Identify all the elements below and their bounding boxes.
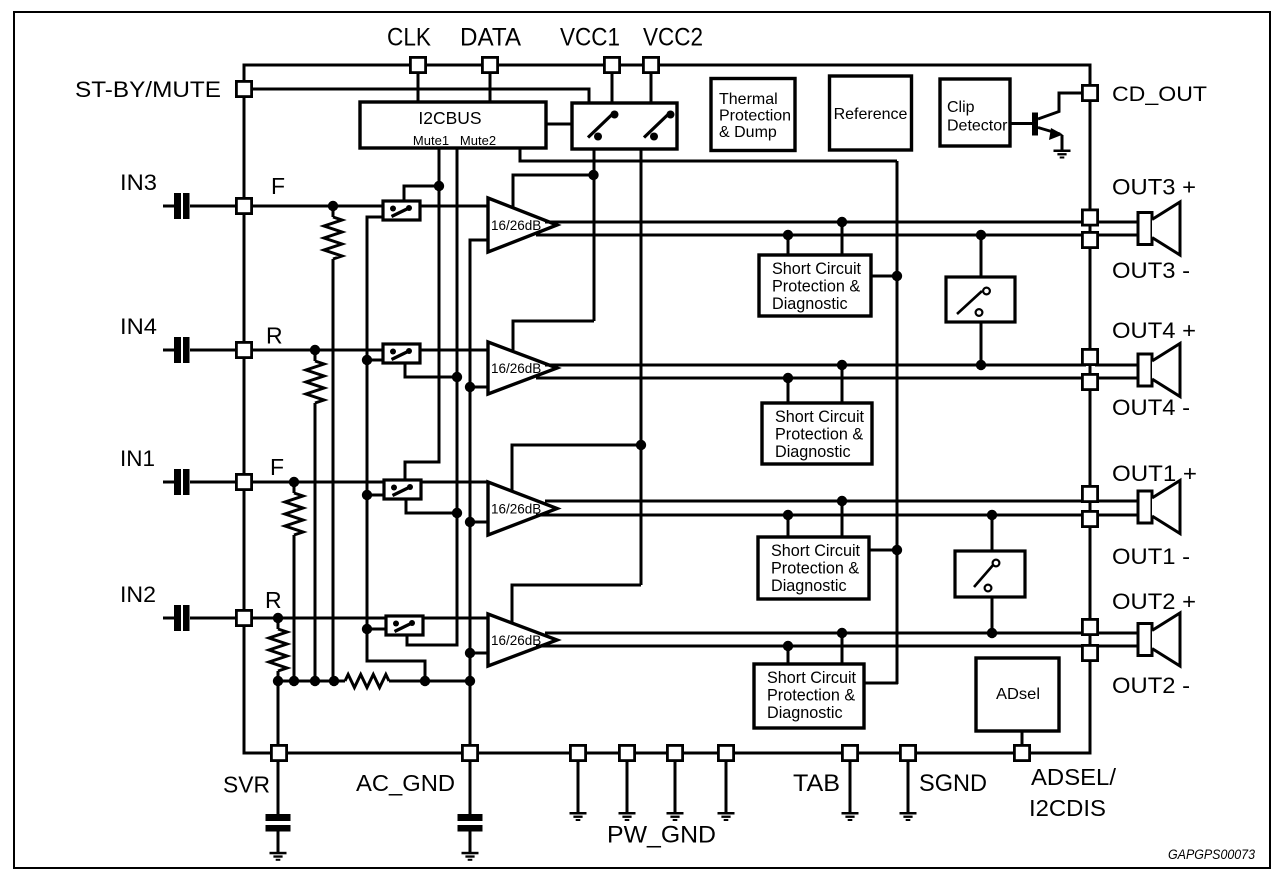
wire Mute2 control bus [407, 148, 457, 645]
wire SC box row2 left sense connector [787, 378, 790, 403]
pin PW_GND3 [667, 745, 682, 760]
junction dot AC bus row3 [465, 517, 475, 527]
pin PW_GND4 [718, 745, 733, 760]
ground symbol SGND [900, 812, 917, 815]
wire PW_GND pin 3 stub [674, 762, 677, 813]
wire speaker stub + row1 [1095, 221, 1139, 224]
svg-text:OUT3 +: OUT3 + [1112, 175, 1196, 200]
speaker OUT1 [1138, 491, 1152, 523]
wire SC box row3 left sense connector [787, 515, 790, 537]
svg-text:ADsel: ADsel [996, 686, 1040, 703]
pin VCC1 [604, 57, 619, 72]
wire OUT upper line channel row1 [545, 221, 1086, 224]
svg-text:Short Circuit: Short Circuit [775, 408, 865, 426]
wire amp3 feedback tap [512, 445, 641, 491]
junction dot SC1 tap [892, 271, 902, 281]
wire SC box row4 left sense connector [787, 646, 790, 664]
wire speaker stub + row3 [1095, 500, 1139, 503]
wire PW_GND pin 4 stub [725, 762, 728, 813]
svg-text:I2CBUS: I2CBUS [418, 108, 481, 128]
wire chain stub to box3 [367, 494, 385, 497]
svg-text:GAPGPS00073: GAPGPS00073 [1168, 847, 1255, 862]
svg-text:IN2: IN2 [120, 582, 156, 607]
wire Mute1 control bus [405, 148, 439, 481]
junction dot amp1 feedback [588, 170, 598, 180]
pin OUT1- [1082, 511, 1097, 526]
junction dot input row1 [328, 201, 338, 211]
pin ADSEL/I2CDIS [1014, 745, 1029, 760]
IC boundary box [244, 65, 1090, 753]
svg-text:CLK: CLK [387, 23, 431, 51]
wire SVR to pin [277, 681, 280, 744]
ground symbol PW_GND 3 [667, 812, 684, 815]
svg-text:SGND: SGND [919, 770, 987, 797]
wire amp3 inverting input [470, 521, 488, 524]
op-amp power amplifier A2 (16/26dB) [488, 342, 557, 394]
wire RSW2 lower connector to OUT2+ line [991, 595, 994, 633]
svg-text:OUT3 -: OUT3 - [1112, 258, 1190, 283]
svg-text:Mute1: Mute1 [413, 133, 449, 148]
ground symbol PW_GND 1 [570, 812, 587, 815]
pin OUT3- [1082, 232, 1097, 247]
wire channel3 input switch control [404, 186, 437, 201]
ground symbol transistor emitter [1054, 150, 1071, 153]
svg-text:SVR: SVR [223, 772, 270, 798]
svg-text:IN1: IN1 [120, 446, 155, 471]
svg-text:AC_GND: AC_GND [356, 770, 455, 796]
wire RSW1 upper connector to OUT3- line [980, 235, 983, 280]
block Reference [830, 76, 912, 150]
wire ST-BY/MUTE from pin to dual switch box [253, 89, 589, 103]
block Short Circuit Protection & Diagnostic 3 [758, 537, 869, 599]
block Short Circuit Protection & Diagnostic 2 [762, 403, 872, 464]
capacitor CIN1 input coupling [163, 481, 174, 484]
svg-text:Clip: Clip [947, 99, 975, 116]
junction dot AC bus row2 [465, 382, 475, 392]
wire speaker stub + row2 [1095, 364, 1139, 367]
wire channel1 input switch control to Mute2 [406, 499, 454, 513]
wire input line row3 from IN pin to amplifier [253, 481, 488, 484]
svg-text:& Dump: & Dump [719, 124, 777, 141]
svg-text:OUT2 +: OUT2 + [1112, 589, 1196, 614]
svg-text:Reference: Reference [834, 106, 908, 123]
resistor RIN1 input bias [293, 482, 296, 493]
wire OUT upper line channel row4 [545, 632, 1086, 635]
capacitor CIN4 input coupling [163, 349, 174, 352]
svg-text:VCC1: VCC1 [560, 23, 620, 51]
input mute switch box row3 [384, 480, 421, 499]
block Short Circuit Protection & Diagnostic 4 [754, 664, 864, 728]
pin OUT1+ [1082, 486, 1097, 501]
svg-text:Diagnostic: Diagnostic [775, 443, 851, 461]
pin OUT4+ [1082, 349, 1097, 364]
ground symbol AC_GND [462, 852, 479, 855]
svg-text:Protection &: Protection & [772, 278, 860, 296]
svg-text:Diagnostic: Diagnostic [772, 295, 848, 313]
wire DATA pin to I2CBUS [489, 74, 492, 103]
svg-text:OUT1 -: OUT1 - [1112, 544, 1190, 569]
junction dot SC sense lower row1 [783, 230, 793, 240]
junction dot RSW1 upper [976, 230, 986, 240]
wire tap SC1 to diagnostic bus [871, 275, 897, 278]
svg-text:Diagnostic: Diagnostic [771, 577, 847, 595]
svg-text:VCC2: VCC2 [643, 23, 703, 51]
resistor Rmix horizontal [345, 675, 389, 688]
svg-text:I2CDIS: I2CDIS [1029, 795, 1106, 821]
junction dot Mute2 to channel-4R input switch [452, 372, 462, 382]
junction dot bus IN2 leg / SVR [273, 676, 283, 686]
wire RSW1 lower connector to OUT4+ line [980, 320, 983, 365]
pin PW_GND1 [570, 745, 585, 760]
input mute switch box row1 [383, 201, 420, 220]
svg-text:OUT4 +: OUT4 + [1112, 318, 1196, 343]
svg-text:Detector: Detector [947, 118, 1008, 135]
svg-text:Thermal: Thermal [719, 91, 778, 108]
svg-text:Diagnostic: Diagnostic [767, 704, 843, 722]
wire amp1 feedback tap [513, 175, 593, 207]
pin IN3 [236, 198, 251, 213]
ground symbol PW_GND 4 [718, 812, 735, 815]
op-amp power amplifier A3 (16/26dB) [488, 482, 557, 535]
pin IN2 [236, 610, 251, 625]
svg-text:OUT4 -: OUT4 - [1112, 395, 1190, 420]
switch glyph RSW2 [974, 564, 994, 587]
input mute switch box row4 [386, 616, 423, 635]
wire speaker stub - row3 [1095, 514, 1139, 517]
switch glyph B in dual switch box [644, 115, 668, 138]
pin DATA [482, 57, 497, 72]
wire SC box row2 right sense connector [841, 365, 844, 403]
resistor RIN4 input bias [314, 350, 317, 361]
svg-text:Short Circuit: Short Circuit [771, 542, 861, 560]
pin TAB [842, 745, 857, 760]
wire OUT lower line channel row3 [536, 514, 1086, 517]
junction dot bus chain leg [420, 676, 430, 686]
block I2CBUS [360, 102, 546, 148]
pin VCC2 [643, 57, 658, 72]
svg-text:Short Circuit: Short Circuit [772, 260, 862, 278]
junction dot input row2 [310, 345, 320, 355]
wire SVR pin lead below [277, 762, 280, 814]
transistor Q1 clip detector output [1010, 122, 1033, 125]
input mute switch box row2 [383, 344, 420, 363]
svg-text:16/26dB: 16/26dB [491, 218, 541, 233]
op-amp power amplifier A4 (16/26dB) [488, 614, 557, 666]
wire CD_OUT to transistor collector [1038, 93, 1081, 119]
junction dot SC sense lower row3 [783, 510, 793, 520]
wire bottom summing bus [278, 680, 345, 683]
speaker OUT2 [1138, 624, 1152, 656]
svg-text:PW_GND: PW_GND [607, 822, 716, 849]
svg-text:OUT1 +: OUT1 + [1112, 461, 1197, 486]
svg-text:Short Circuit: Short Circuit [767, 669, 857, 687]
wire VCC1 pin to switch box [611, 74, 614, 104]
junction dot SC sense upper row2 [837, 360, 847, 370]
op-amp power amplifier A1 (16/26dB) [488, 198, 557, 252]
block Clip Detector [940, 79, 1010, 146]
svg-text:IN3: IN3 [120, 170, 157, 195]
wire PW_GND pin 1 stub [577, 762, 580, 813]
wire switch output right x=641 [640, 149, 643, 585]
junction dot bus IN3 leg [329, 676, 339, 686]
junction dot chain row4 [362, 624, 372, 634]
wire AC_GND feedback bus x=470 [470, 240, 487, 744]
junction dot bus IN1 leg [289, 676, 299, 686]
block ADsel [976, 658, 1059, 731]
pin IN4 [236, 342, 251, 357]
capacitor CIN2 input coupling [163, 617, 174, 620]
junction dot input row3 [289, 477, 299, 487]
wire amp4 inverting input [471, 652, 488, 655]
switch glyph RSW1 [957, 291, 982, 314]
svg-text:16/26dB: 16/26dB [491, 501, 541, 516]
junction dot SC sense lower row2 [783, 373, 793, 383]
pin SVR [271, 745, 286, 760]
pin PW_GND2 [619, 745, 634, 760]
switch glyph A in dual switch box [588, 115, 612, 138]
wire chain stub to box4 [367, 628, 387, 631]
wire speaker stub - row4 [1095, 645, 1139, 648]
wire SGND pin stub [907, 762, 910, 813]
svg-text:Protection &: Protection & [775, 426, 863, 444]
wire TAB pin stub [849, 762, 852, 813]
pin CD_OUT [1082, 85, 1097, 100]
pin ST-BY/MUTE [236, 81, 251, 96]
svg-text:R: R [265, 587, 282, 613]
ground symbol TAB [842, 812, 859, 815]
wire AC_GND pin lead below [469, 762, 472, 814]
svg-text:Mute2: Mute2 [460, 133, 496, 148]
wire amp4 feedback tap [512, 585, 641, 623]
junction dot bus IN4 leg [310, 676, 320, 686]
block Thermal Protection & Dump [711, 79, 795, 151]
wire SC box row3 right sense connector [841, 501, 844, 537]
junction dot RSW1 lower [976, 360, 986, 370]
wire I2CBUS tap down and right to node bus [520, 148, 897, 161]
junction dot SC sense lower row4 [783, 641, 793, 651]
svg-text:OUT2 -: OUT2 - [1112, 673, 1190, 698]
wire OUT lower line channel row2 [536, 377, 1086, 380]
svg-text:16/26dB: 16/26dB [491, 633, 541, 648]
wire vertical diagnostic bus x=897 [896, 161, 899, 684]
ground symbol SVR [270, 852, 287, 855]
resistor RIN3 input bias [332, 206, 335, 217]
pin OUT3+ [1082, 210, 1097, 225]
wire RSW2 upper connector to OUT1- line [991, 515, 994, 553]
capacitor C_SVR [266, 814, 291, 821]
svg-text:ST-BY/MUTE: ST-BY/MUTE [75, 77, 221, 102]
pin OUT4- [1082, 374, 1097, 389]
svg-text:ADSEL/: ADSEL/ [1031, 764, 1117, 790]
junction dot chain row3 [362, 490, 372, 500]
wire speaker stub - row1 [1095, 234, 1139, 237]
svg-text:F: F [270, 454, 284, 480]
wire input line row2 from IN pin to amplifier [253, 349, 488, 352]
junction dot amp3 feedback [636, 440, 646, 450]
capacitor C_ACGND [458, 814, 483, 821]
junction dot SC sense upper row3 [837, 496, 847, 506]
svg-text:DATA: DATA [460, 23, 521, 51]
pin SGND [900, 745, 915, 760]
wire CLK pin to I2CBUS [417, 74, 420, 103]
junction dot chain row2 [362, 355, 372, 365]
svg-text:R: R [266, 323, 283, 349]
wire speaker stub - row2 [1095, 377, 1139, 380]
junction dot Mute1 to channel-3 input switch [434, 181, 444, 191]
capacitor CIN3 input coupling [163, 205, 174, 208]
junction dot SC sense upper row1 [837, 217, 847, 227]
pin OUT2+ [1082, 619, 1097, 634]
block output switch RSW1 [946, 277, 1015, 322]
wire speaker stub + row4 [1095, 632, 1139, 635]
junction dot input row4 [273, 613, 283, 623]
block output switch RSW2 [955, 551, 1025, 597]
svg-text:Protection &: Protection & [767, 687, 855, 705]
wire SC box row1 left sense connector [787, 235, 790, 255]
pin AC_GND [462, 745, 477, 760]
wire input line row1 from IN pin to amplifier [253, 205, 488, 208]
speaker OUT3 [1138, 213, 1152, 245]
block dual CD/diag switch box U2 [572, 103, 677, 149]
svg-text:CD_OUT: CD_OUT [1112, 83, 1207, 106]
ground symbol PW_GND 2 [619, 812, 636, 815]
wire OUT lower line channel row1 [536, 234, 1086, 237]
pin IN1 [236, 474, 251, 489]
svg-text:TAB: TAB [793, 770, 840, 797]
wire tap SC4 to diagnostic bus [864, 682, 898, 685]
wire SC box row1 right sense connector [841, 222, 844, 255]
wire amp2 inverting input [470, 386, 488, 389]
speaker OUT4 [1138, 354, 1152, 386]
wire OUT upper line channel row3 [545, 500, 1086, 503]
svg-text:Protection &: Protection & [771, 560, 859, 578]
wire I2CBUS to switch box [546, 123, 572, 126]
junction dot AC bus bottom network [465, 676, 475, 686]
wire input-switch chain bus x=367 [367, 217, 425, 681]
wire OUT upper line channel row2 [545, 364, 1086, 367]
svg-text:Protection: Protection [719, 108, 791, 125]
wire input line row4 from IN pin to amplifier [253, 617, 488, 620]
block Short Circuit Protection & Diagnostic 1 [759, 255, 871, 316]
junction dot RSW2 lower [987, 628, 997, 638]
wire PW_GND pin 2 stub [626, 762, 629, 813]
wire switch output left x=594 [593, 149, 596, 321]
wire ADsel box to ADSEL pin [1021, 731, 1024, 746]
pin OUT2- [1082, 645, 1097, 660]
junction dot SC sense upper row4 [837, 628, 847, 638]
resistor RIN2 input bias [277, 618, 280, 629]
junction dot Mute2 to channel-1 input switch [452, 508, 462, 518]
junction dot RSW2 upper [987, 510, 997, 520]
wire OUT lower line channel row4 [536, 645, 1086, 648]
pin CLK [410, 57, 425, 72]
wire SC box row4 right sense connector [841, 633, 844, 664]
wire VCC2 pin to switch box [650, 74, 653, 104]
svg-text:16/26dB: 16/26dB [491, 361, 541, 376]
wire amp2 feedback tap [513, 321, 594, 350]
junction dot AC bus row4 [465, 648, 475, 658]
svg-text:F: F [271, 173, 285, 199]
wire chain stub to box2 [367, 359, 384, 362]
svg-text:IN4: IN4 [120, 314, 157, 339]
junction dot SC3 tap [892, 545, 902, 555]
wire tap SC3 to diagnostic bus [869, 549, 897, 552]
wire channel4R input switch control to Mute2 [405, 364, 455, 377]
